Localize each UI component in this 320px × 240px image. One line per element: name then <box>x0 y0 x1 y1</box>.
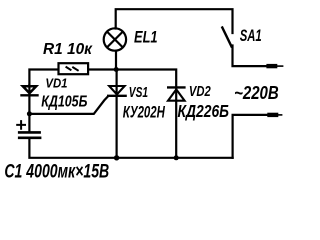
wire VD1 cathode to junction <box>28 85 30 114</box>
junction node VD2/bottom rail <box>174 155 179 160</box>
terminal lower tail <box>278 114 282 116</box>
svg-text:VS1: VS1 <box>129 85 148 101</box>
svg-text:VD1: VD1 <box>45 76 67 91</box>
wire capacitor top lead <box>28 114 30 132</box>
thyristor VS1 <box>107 86 127 96</box>
wire VD2 anode to bottom rail <box>175 88 177 158</box>
wire VS1 cathode to bottom rail <box>115 96 117 158</box>
wire bus middle segment resistor to VD2 corner <box>88 70 176 87</box>
svg-text:С1 4000мк×15В: С1 4000мк×15В <box>4 160 109 182</box>
diode VD1 <box>20 86 38 95</box>
wire top rail from lamp to switch <box>116 9 233 33</box>
wire gate of VS1 <box>29 97 107 114</box>
svg-text:EL1: EL1 <box>134 28 158 46</box>
wire switch to upper terminal <box>233 46 267 67</box>
junction node VD1/gate/C1 <box>27 111 32 116</box>
diode VD2 <box>167 87 186 100</box>
svg-text:~220В: ~220В <box>234 82 279 103</box>
svg-text:КД226Б: КД226Б <box>178 102 230 121</box>
svg-text:VD2: VD2 <box>189 84 211 100</box>
junction node VS1/bottom rail <box>114 155 119 160</box>
wire lamp bottom to bus junction <box>115 51 117 70</box>
wire right vertical to lower terminal <box>233 115 268 158</box>
wire VS1 anode <box>115 70 117 96</box>
svg-text:КУ202Н: КУ202Н <box>123 103 166 122</box>
svg-text:SA1: SA1 <box>240 26 262 45</box>
wire capacitor bottom lead and bottom rail <box>29 139 232 158</box>
capacitor C1 plates <box>18 132 42 137</box>
lamp EL1 <box>104 28 126 50</box>
terminal upper contact dash <box>266 64 277 68</box>
svg-text:КД105Б: КД105Б <box>41 93 87 110</box>
junction node bus/lamp/VS1 <box>114 67 119 72</box>
svg-text:R1 10к: R1 10к <box>43 41 93 58</box>
wire bus left segment with corner into VD1 <box>29 70 58 86</box>
switch SA1 blade <box>222 28 231 47</box>
terminal upper tail <box>277 65 283 67</box>
capacitor polarity plus sign <box>16 120 26 130</box>
resistor R1 body <box>59 63 89 74</box>
terminal lower contact dash <box>267 113 278 117</box>
